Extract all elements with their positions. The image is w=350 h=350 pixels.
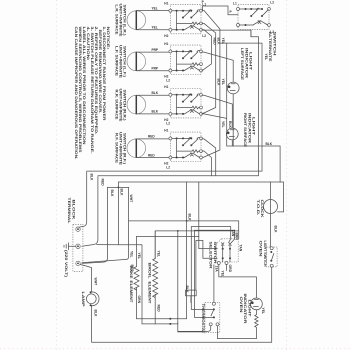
svg-text:UNIT+INFINITE: UNIT+INFINITE [119,89,123,123]
svg-text:LABEL ALL WIRES PRIOR TO DISCO: LABEL ALL WIRES PRIOR TO DISCONNECTION [82,27,86,146]
label LEFT SURFACE INDICATOR LIGHT [240,48,253,81]
oven indicator resistor [255,310,258,338]
svg-text:RED: RED [156,305,160,313]
ground [64,243,76,250]
svg-text:L2: L2 [202,34,206,38]
svg-text:YEL: YEL [221,79,225,86]
svg-text:LIGHT: LIGHT [252,117,256,137]
node label: surface unit LR name [115,4,127,38]
svg-text:R.R. SURFACE: R.R. SURFACE [115,90,119,121]
svg-text:TERMINAL: TERMINAL [67,198,71,224]
wire left light bottom [232,94,234,146]
wire L2 switch LR to down bus [98,30,259,176]
svg-text:T.O.D.: T.O.D. [256,200,260,216]
wire selector 13A to oven indicator light [219,265,257,298]
node label: surface unit RF name [115,132,127,166]
fold line vertical right [286,0,288,350]
wire clock top stub [270,182,272,200]
svg-text:ELEMENT: ELEMENT [129,281,133,304]
svg-text:SWITCH: SWITCH [272,32,276,57]
svg-text:NOTICE:: NOTICE: [106,27,110,50]
node label: surface unit RR name [115,89,127,123]
svg-text:WHEN SERVICING CONTROLS, WIRIN: WHEN SERVICING CONTROLS, WIRING PROBLEMS [78,27,82,154]
svg-text:3- SWITCH PLEASE RETURN DIAGRA: 3- SWITCH PLEASE RETURN DIAGRAM TO RANGE… [90,27,94,154]
svg-text:UNIT+INFINITE: UNIT+INFINITE [119,132,123,166]
wire lamp feed from bottom terminal [80,265,91,292]
svg-text:SWITCH (L.R.): SWITCH (L.R.) [123,5,127,36]
svg-text:GRN: GRN [137,296,141,304]
svg-text:YEL: YEL [156,251,160,258]
svg-text:YEL: YEL [264,54,268,61]
svg-text:RIGHT SURFACE: RIGHT SURFACE [243,113,247,148]
svg-text:H1: H1 [164,42,168,46]
wire [136,10,169,12]
svg-text:ELEMENT: ELEMENT [147,282,151,305]
svg-text:H2: H2 [164,34,168,38]
label T.O.D. CLOCK [256,200,264,219]
wire thermostat bottom 2 [218,326,257,339]
wire broil bottom [142,294,178,324]
wire alt switch bottom stub [250,30,252,37]
wire across to right bus [87,43,262,171]
label SELECTOR SWITCH [209,242,217,270]
infinite switch RR [169,89,203,118]
wire oven light switch to bottom [271,267,273,342]
wire RF P [202,151,211,176]
svg-text:RED: RED [148,135,155,139]
svg-text:L2: L2 [166,122,170,126]
notice text block [74,27,110,160]
wire lamp to bottom line [92,305,272,342]
svg-text:OVEN: OVEN [239,297,243,314]
svg-text:TAN: TAN [239,245,243,252]
terminal [76,261,80,265]
svg-text:BLK: BLK [217,79,221,87]
svg-text:L2: L2 [166,78,170,82]
broil element [153,259,158,298]
svg-text:BLOCK: BLOCK [71,200,75,221]
left surface indicator light [227,82,239,94]
label RIGHT SURFACE INDICATOR LIGHT [243,113,256,148]
wire L1 switch LR to bus YEL [202,11,220,158]
wire v186.6 [186,182,188,319]
svg-text:L1: L1 [233,2,237,6]
wire v118 down [117,182,119,245]
right surface indicator light [226,128,238,140]
wire [136,94,169,96]
wire bake bottom [137,288,187,319]
svg-text:OVEN: OVEN [259,241,263,258]
node label: surface unit LF name [115,45,127,79]
terminal [76,227,80,231]
svg-text:BLK: BLK [273,226,277,234]
oven indicator light [251,298,263,310]
wire thermostat top feed [213,265,215,303]
wire selector GRD stub [226,265,228,271]
terminal block [73,224,83,271]
svg-text:SWITCH (R.R.): SWITCH (R.R.) [123,90,127,121]
svg-text:1- DISCONNECT RANGE FROM POWER: 1- DISCONNECT RANGE FROM POWER [102,27,106,122]
label TERMINAL BLOCK [67,198,75,224]
surface unit RF (burner) [127,139,146,158]
svg-text:BLK: BLK [266,142,273,146]
wire RED feeder to terminal block [82,177,98,247]
svg-text:BAKE: BAKE [129,266,133,280]
svg-text:YEL: YEL [152,26,158,30]
svg-text:LEFT SURFACE: LEFT SURFACE [240,48,244,81]
svg-text:RED: RED [148,153,155,157]
wire right indicator feed [202,95,232,127]
wire thermostat bottom 1 [178,326,211,332]
label BAKE ELEMENT [129,266,133,304]
wire nest line 2 [178,231,203,332]
wire plug to thermostat [190,296,192,303]
wire bake feeder [136,236,138,266]
wire feeder h187 [82,187,129,262]
wire nest line 3 [191,227,230,243]
selector switch [216,239,238,265]
fold line vertical left [56,0,58,350]
svg-text:BRN: BRN [235,233,239,241]
svg-text:CAN CAUSE IMPROPER AND DANGERO: CAN CAUSE IMPROPER AND DANGEROUS OPERATI… [74,27,78,160]
svg-text:SWITCH (L.F.): SWITCH (L.F.) [123,46,127,77]
svg-text:4- CAUTION:: 4- CAUTION: [86,27,90,61]
svg-text:INDICATOR: INDICATOR [243,294,247,325]
svg-text:BLK: BLK [89,174,93,182]
svg-text:YEL: YEL [220,271,224,278]
wire P switch LR to bus BLK [202,23,216,114]
label BROIL ELEMENT [147,263,151,305]
svg-text:2- REFER ONLY TO FEATURES EQUI: 2- REFER ONLY TO FEATURES EQUIPPED. [94,27,98,135]
svg-text:BLK: BLK [187,214,191,222]
junction [169,323,171,325]
surface unit LR (burner) [127,11,146,30]
wire [136,138,169,140]
wire [136,70,169,72]
svg-text:UNIT+INFINITE: UNIT+INFINITE [119,45,123,79]
label ALTERNATE SWITCH [268,32,276,63]
wire h244.8 [97,244,143,246]
svg-text:SWITCH: SWITCH [213,242,217,265]
surface unit LF (burner) [127,52,146,71]
junction [177,230,179,232]
svg-text:LAMP: LAMP [81,292,85,308]
wire [136,51,169,53]
svg-text:BLK: BLK [228,121,232,129]
oven lamp [86,291,99,306]
svg-text:LIGHT SWITCH: LIGHT SWITCH [263,241,267,268]
svg-text:13A: 13A [215,266,219,273]
svg-text:R.F. SURFACE: R.F. SURFACE [115,133,119,164]
svg-text:THERMOSTAT: THERMOSTAT [201,304,205,335]
svg-text:YEL: YEL [261,308,265,315]
wire P of switch LR to alternate switch [203,6,238,15]
wire clock bottom to oven light switch [270,214,272,248]
svg-text:SWITCH (R.F.): SWITCH (R.F.) [123,133,127,164]
svg-text:BROIL: BROIL [147,263,151,279]
bake element [134,267,139,290]
wire vertical x=226.7 [227,43,280,182]
svg-text:YEL: YEL [221,121,225,128]
wire [136,29,169,31]
terminal [76,244,80,248]
svg-text:INDICATOR: INDICATOR [244,48,248,79]
infinite switch RF [169,132,203,161]
wire nest line 1 [155,231,239,259]
infinite switch LR [169,4,203,33]
svg-text:L.F. SURFACE: L.F. SURFACE [115,46,119,77]
T.O.D. clock [264,200,278,214]
wire L2 switch LR to bus RED [202,30,211,71]
svg-text:BLK: BLK [93,310,97,318]
wire BLK feeder to bottom terminal [82,187,108,263]
fold line bottom [0,347,350,349]
wire [136,113,169,115]
connector plug [186,290,197,296]
alternate switch [237,4,271,29]
svg-text:H1: H1 [164,1,168,5]
oven light switch [266,247,277,268]
svg-text:BLK: BLK [110,190,114,198]
svg-text:GRD: GRD [228,265,232,273]
svg-text:UNIT+INFINITE: UNIT+INFINITE [119,4,123,38]
wire nest line 5 [137,236,218,248]
svg-text:BLK: BLK [217,38,221,46]
wire [136,157,169,159]
svg-text:L2: L2 [270,0,274,4]
svg-text:LIGHT: LIGHT [248,300,252,319]
svg-text:H1: H1 [164,129,168,133]
wire RR L2 to bus [202,114,227,119]
label OVEN LIGHT SWITCH [259,241,267,268]
svg-text:YEL: YEL [130,251,134,258]
svg-text:WHT: WHT [93,278,97,287]
label OVEN INDICATOR LIGHT [239,294,252,325]
svg-text:H1: H1 [164,85,168,89]
wire left indicator feed [202,52,233,81]
wire grn [141,245,143,324]
svg-text:CLOCK: CLOCK [260,200,264,219]
svg-text:BLK: BLK [120,189,124,197]
svg-text:YEL: YEL [152,6,158,10]
wire L1 feeder to terminal block [80,172,87,227]
svg-text:SELECTOR: SELECTOR [209,242,213,270]
svg-text:BLK: BLK [152,91,159,95]
wire broil feeder [154,231,156,259]
svg-text:LIGHT: LIGHT [249,52,253,72]
wire right light bottom [231,140,233,146]
wire selector feed riser [198,182,200,236]
wire oven top line [129,221,239,239]
svg-text:YEL: YEL [137,253,141,260]
svg-text:L2: L2 [166,165,170,169]
svg-text:BLK: BLK [152,110,159,114]
svg-text:TAN: TAN [231,230,235,237]
svg-text:INDICATOR: INDICATOR [247,113,251,144]
wire RF L1 [202,139,216,176]
svg-text:PRP: PRP [152,67,159,71]
wire clock feeder [118,182,283,212]
svg-text:(220 VOLT): (220 VOLT) [64,250,68,277]
wire nest line 4 [195,230,235,242]
junction [169,318,171,320]
surface unit RR (burner) [127,95,146,114]
svg-text:L.R. SURFACE: L.R. SURFACE [115,5,119,36]
svg-text:RED: RED [101,179,105,187]
infinite switch LF [169,45,203,74]
svg-text:RED: RED [212,38,216,46]
svg-text:PRP: PRP [152,48,159,52]
svg-text:WHT: WHT [129,195,133,204]
svg-text:BEFORE REMOVING WIRE COVER.: BEFORE REMOVING WIRE COVER. [98,30,102,114]
thermostat [205,302,220,332]
